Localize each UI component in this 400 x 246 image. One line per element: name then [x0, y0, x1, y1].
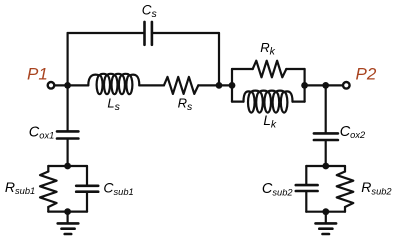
node F (Cox1 to sub box)	[64, 163, 71, 170]
wire left sub box bottom edge	[48, 211, 87, 213]
wire top branch right	[152, 32, 219, 34]
node A	[64, 82, 71, 89]
wire parallel box left edge	[231, 69, 233, 102]
capacitor Cs	[145, 22, 152, 45]
wire left sub box top edge	[48, 165, 87, 167]
node B	[216, 82, 223, 89]
port P2	[343, 82, 350, 89]
wire box top left stub	[232, 68, 253, 70]
node G (left box bottom)	[64, 208, 71, 215]
wire Rsub2 bottom stub	[344, 207, 346, 212]
wire right sub box bottom edge	[306, 211, 345, 213]
capacitor Cox1	[57, 131, 78, 138]
wire Csub2 top stub	[305, 166, 307, 185]
wire Ls to Rs	[139, 84, 164, 86]
wire Csub1 top stub	[86, 166, 88, 186]
capacitor Csub1	[76, 186, 98, 192]
wire left vertical (node A up to top branch, down to Cox1)	[66, 33, 68, 131]
wire Csub2 bottom stub	[305, 191, 307, 212]
wire Rs to node C	[198, 84, 232, 86]
wire Cox1 to sub box	[66, 139, 68, 166]
wire node A to Ls	[68, 84, 89, 86]
wire Rsub1 bottom stub	[47, 207, 49, 212]
wire right vertical to Cox2	[325, 85, 327, 133]
wire Csub1 bottom stub	[86, 192, 88, 212]
wire top branch left	[68, 32, 145, 34]
port P1	[48, 82, 55, 89]
wire parallel box right edge	[304, 69, 306, 102]
resistor Rk	[253, 61, 287, 78]
svg-text:P1: P1	[27, 65, 48, 84]
svg-text:P2: P2	[356, 65, 377, 84]
capacitor Csub2	[296, 185, 318, 191]
wire ground2 stub	[325, 212, 327, 224]
node E	[322, 82, 329, 89]
wire P1 to node A	[55, 84, 68, 86]
inductor Ls	[88, 74, 139, 86]
resistor Rs	[164, 77, 198, 94]
ground 2	[316, 223, 337, 234]
node D	[301, 82, 308, 89]
node I (right box bottom)	[322, 208, 329, 215]
wire box bottom left stub	[232, 100, 244, 102]
ground 1	[58, 223, 79, 234]
resistor Rsub2	[337, 172, 354, 208]
wire Rsub1 top stub	[47, 166, 49, 172]
wire Cox2 to sub box	[325, 140, 327, 166]
wire Rsub2 top stub	[344, 166, 346, 172]
wire box top right stub	[286, 68, 304, 70]
wire ground1 stub	[66, 212, 68, 224]
capacitor Cox2	[314, 133, 338, 140]
node H (Cox2 to sub box)	[322, 163, 329, 170]
wire node D to port P2	[305, 84, 343, 86]
resistor Rsub1	[40, 172, 57, 208]
wire right vertical of top branch	[218, 33, 220, 85]
wire box bottom right stub	[293, 100, 305, 102]
inductor Lk	[244, 91, 293, 102]
node C	[229, 82, 236, 89]
wire right sub box top edge	[306, 165, 345, 167]
